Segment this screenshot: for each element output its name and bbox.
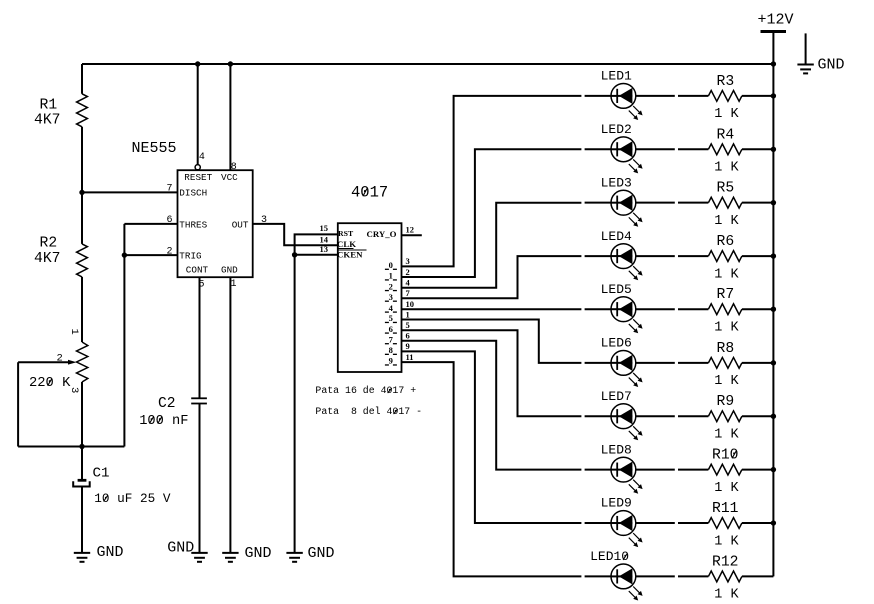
resistor R1 (34, 94, 87, 129)
svg-text:13: 13 (320, 244, 329, 254)
wire R10 to +12V rail (742, 469, 774, 471)
wire Q1 (pin 2) to LED2 (402, 149, 582, 277)
wire 4017 RST pin 15 (295, 234, 338, 553)
wire into LED10 (585, 575, 612, 577)
4017 inner label CLK underline (337, 248, 354, 250)
resistor R10 1K (708, 448, 742, 496)
wire LED7 to R9 (636, 415, 675, 417)
svg-text:4: 4 (389, 303, 394, 313)
junction R6 / +12V rail (771, 253, 776, 258)
svg-text:5: 5 (406, 320, 410, 330)
LED LED10 (590, 549, 643, 600)
svg-text:2: 2 (57, 353, 63, 365)
svg-text:8: 8 (389, 345, 393, 355)
+12V supply symbol (758, 12, 794, 65)
svg-text:LED5: LED5 (601, 282, 632, 297)
junction top rail / +12V rail (771, 61, 776, 66)
wire NE555 OUT to 4017 CLK (253, 224, 338, 245)
junction DISCH node (79, 190, 84, 195)
wire 4017 CKEN pin 13 (295, 254, 338, 256)
svg-text:R10: R10 (712, 448, 738, 464)
wire into LED8 (585, 469, 612, 471)
junction R5 / +12V rail (771, 200, 776, 205)
svg-text:C1: C1 (93, 466, 110, 482)
svg-text:RESET: RESET (184, 172, 212, 183)
svg-text:6: 6 (406, 331, 410, 341)
svg-text:2: 2 (389, 281, 393, 291)
svg-text:100 nF: 100 nF (139, 414, 188, 429)
capacitor C1 (electrolytic 10uF) (73, 447, 171, 506)
svg-text:11: 11 (406, 352, 414, 362)
wire R3 to +12V rail (742, 95, 774, 97)
wire R5 to +12V rail (742, 202, 774, 204)
svg-text:3: 3 (406, 256, 410, 266)
svg-text:NE555: NE555 (132, 140, 177, 157)
svg-text:220 K: 220 K (29, 376, 71, 391)
LED LED3 (601, 175, 643, 226)
wire R9 to +12V rail (742, 415, 774, 417)
svg-text:GND: GND (818, 57, 845, 74)
svg-text:R3: R3 (717, 74, 735, 90)
resistor R7 1K (708, 287, 742, 335)
svg-text:1 K: 1 K (714, 588, 739, 603)
note: Pata 8 del 4017 - (315, 406, 422, 417)
svg-text:LED8: LED8 (601, 442, 632, 457)
wire 4017 CRY_O pin 12 stub (402, 234, 422, 236)
svg-text:GND: GND (97, 544, 124, 561)
wire into LED5 (585, 308, 612, 310)
wire pot wiper bottom to TRIG vertical (18, 446, 124, 448)
svg-text:1 K: 1 K (714, 534, 739, 549)
svg-text:6: 6 (389, 324, 393, 334)
wire Q7 (pin 6) to LED8 (402, 341, 582, 470)
note: Pata 16 de 4017 + (315, 385, 416, 396)
4017 output Q3 inner label (385, 292, 397, 302)
4017 output Q1 inner label (385, 271, 397, 281)
wire R6 to +12V rail (742, 255, 774, 257)
junction R10 / +12V rail (771, 467, 776, 472)
svg-text:R5: R5 (717, 181, 735, 197)
svg-text:LED4: LED4 (601, 229, 632, 244)
resistor R3 1K (708, 74, 742, 122)
svg-text:GND: GND (221, 265, 238, 276)
svg-text:1 K: 1 K (714, 214, 739, 229)
svg-text:GND: GND (308, 545, 335, 562)
junction RST/CKEN net (292, 252, 297, 257)
4017 output Q4 inner label (385, 303, 397, 313)
svg-text:CKEN: CKEN (337, 249, 363, 259)
svg-text:1 K: 1 K (714, 267, 739, 282)
LED LED7 (601, 389, 643, 440)
ground NE555 pin 1 (222, 545, 271, 562)
svg-text:Pata 8 del 4017 -: Pata 8 del 4017 - (315, 406, 422, 417)
LED LED6 (601, 336, 643, 387)
NE555 pin 4 RESET wire with inversion bubble (195, 64, 205, 170)
svg-text:15: 15 (320, 223, 329, 233)
svg-text:VCC: VCC (221, 172, 238, 183)
wire into LED6 (585, 362, 612, 364)
svg-text:CLK: CLK (337, 239, 356, 249)
wire R2 to potentiometer (81, 277, 83, 342)
resistor R2 (34, 236, 87, 277)
wire Q2 (pin 4) to LED3 (402, 203, 582, 288)
svg-text:R2: R2 (40, 236, 58, 252)
svg-text:9: 9 (389, 356, 393, 366)
svg-text:GND: GND (167, 540, 194, 557)
svg-text:R8: R8 (717, 341, 735, 357)
svg-text:LED3: LED3 (601, 175, 632, 190)
4017 output Q8 inner label (385, 345, 397, 355)
svg-text:12: 12 (406, 225, 415, 235)
svg-text:1: 1 (68, 329, 80, 335)
wire Q6 (pin 5) to LED7 (402, 330, 582, 416)
LED LED1 (601, 69, 643, 120)
resistor R4 1K (708, 127, 742, 175)
wire NE555 pin 5 to C2 (199, 277, 201, 398)
svg-text:LED7: LED7 (601, 389, 632, 404)
resistor R6 1K (708, 234, 742, 282)
svg-text:4: 4 (199, 152, 205, 163)
svg-text:LED10: LED10 (590, 549, 629, 564)
LED LED9 (601, 496, 643, 547)
wire pot wiper down-left (17, 362, 19, 446)
svg-text:1 K: 1 K (714, 107, 739, 122)
wire into LED4 (585, 255, 612, 257)
svg-text:1 K: 1 K (714, 161, 739, 176)
4017 output Q6 inner label (385, 324, 397, 334)
wire R11 to +12V rail (742, 522, 774, 524)
wire THRES to NE555 pin 6 (124, 223, 177, 225)
svg-text:2: 2 (406, 267, 410, 277)
svg-text:3: 3 (389, 292, 393, 302)
wire into LED3 (585, 202, 612, 204)
wire LED5 to R7 (636, 308, 675, 310)
wire R12 to +12V rail (742, 575, 774, 577)
svg-text:R12: R12 (712, 554, 738, 570)
svg-text:+12V: +12V (758, 12, 794, 29)
resistor R5 1K (708, 181, 742, 229)
4017 inner label CKEN overline (337, 249, 367, 251)
wire Q5 (pin 1) to LED6 (402, 320, 582, 363)
svg-text:1: 1 (389, 271, 393, 281)
junction top rail / NE555 pin 8 (228, 61, 233, 66)
wire NE555 pin 1 to ground (229, 277, 231, 553)
resistor R9 1K (708, 394, 742, 442)
wire Q9 (pin 11) to LED10 (402, 362, 582, 576)
svg-text:1 K: 1 K (714, 321, 739, 336)
wire LED2 to R4 (636, 148, 675, 150)
4017 output Q7 inner label (385, 334, 397, 344)
svg-text:R9: R9 (717, 394, 735, 410)
wire DISCH to NE555 pin 7 (82, 191, 178, 193)
capacitor C2 100nF (139, 396, 207, 429)
junction pot bottom / C1 (79, 444, 84, 449)
wire TRIG to NE555 pin 2 (124, 254, 177, 256)
LED LED4 (601, 229, 643, 280)
resistor R11 1K (708, 501, 742, 549)
junction R3 / +12V rail (771, 93, 776, 98)
wire LED8 to R10 (636, 469, 675, 471)
svg-text:OUT: OUT (232, 219, 249, 230)
wire LED10 to R12 (636, 575, 675, 577)
potentiometer 220 K (18, 329, 88, 394)
ground symbol top right (797, 33, 844, 73)
wire Q0 (pin 3) to LED1 (402, 96, 582, 267)
wire top +12V rail horizontal (82, 63, 773, 65)
wire LED6 to R8 (636, 362, 675, 364)
wire LED1 to R3 (636, 95, 675, 97)
wire LED4 to R6 (636, 255, 675, 257)
wire C2 to ground (199, 404, 201, 553)
svg-text:LED1: LED1 (601, 69, 632, 84)
svg-text:4K7: 4K7 (34, 251, 60, 267)
resistor R12 1K (708, 554, 742, 602)
svg-text:14: 14 (320, 234, 329, 244)
junction R7 / +12V rail (771, 307, 776, 312)
LED LED8 (601, 442, 643, 493)
svg-text:R4: R4 (717, 127, 735, 143)
junction R9 / +12V rail (771, 414, 776, 419)
svg-text:CONT: CONT (186, 265, 209, 276)
svg-text:LED9: LED9 (601, 496, 632, 511)
4017 output Q5 inner label (385, 313, 397, 323)
svg-text:TRIG: TRIG (179, 251, 201, 262)
junction R11 / +12V rail (771, 520, 776, 525)
wire +12V rail vertical right (772, 64, 774, 576)
wire R1 to R2 / node DISCH (81, 127, 83, 244)
junction R4 / +12V rail (771, 147, 776, 152)
svg-text:C2: C2 (158, 396, 176, 412)
ground RST/CKEN net (286, 545, 334, 562)
svg-text:RST: RST (338, 229, 354, 238)
wire into LED7 (585, 415, 612, 417)
wire into LED9 (585, 522, 612, 524)
ground C1 (74, 544, 124, 562)
wire R7 to +12V rail (742, 308, 774, 310)
wire Q3 (pin 7) to LED4 (402, 256, 582, 298)
svg-text:4017: 4017 (351, 184, 388, 202)
LED LED2 (601, 122, 643, 173)
svg-text:9: 9 (406, 341, 410, 351)
svg-text:GND: GND (245, 545, 272, 562)
wire into LED1 (585, 95, 612, 97)
svg-text:0: 0 (389, 260, 393, 270)
IC 4017 decade counter (338, 184, 402, 373)
4017 output Q0 inner label (385, 260, 397, 270)
svg-text:LED6: LED6 (601, 336, 632, 351)
junction top rail / NE555 pin 4 (195, 61, 200, 66)
4017 output Q2 inner label (385, 281, 397, 291)
svg-text:1 K: 1 K (714, 481, 739, 496)
svg-text:7: 7 (166, 184, 172, 195)
wire LED3 to R5 (636, 202, 675, 204)
wire pot bottom leg (81, 382, 83, 447)
svg-text:10: 10 (406, 299, 415, 309)
wire LED9 to R11 (636, 522, 675, 524)
4017 output Q9 inner label (385, 356, 397, 366)
wire into LED2 (585, 148, 612, 150)
op IC NE555 timer (132, 140, 253, 277)
svg-text:Pata 16 de 4017 +: Pata 16 de 4017 + (315, 385, 416, 396)
svg-text:1 K: 1 K (714, 428, 739, 443)
svg-text:DISCH: DISCH (179, 187, 207, 198)
svg-text:LED2: LED2 (601, 122, 632, 137)
wire C1 to ground (81, 487, 83, 553)
svg-text:4K7: 4K7 (34, 113, 60, 129)
svg-text:7: 7 (389, 334, 394, 344)
wire THRES/TRIG vertical (123, 224, 125, 447)
wire Q4 (pin 10) to LED5 (402, 308, 582, 310)
resistor R8 1K (708, 341, 742, 389)
svg-text:5: 5 (389, 313, 393, 323)
wire top rail to R1 (81, 64, 83, 94)
svg-text:CRY_O: CRY_O (367, 229, 397, 239)
svg-text:1: 1 (231, 279, 237, 290)
svg-text:R7: R7 (717, 287, 735, 303)
junction TRIG node (122, 252, 127, 257)
ground C2 (167, 540, 208, 562)
svg-text:R1: R1 (40, 98, 58, 114)
LED LED5 (601, 282, 643, 333)
junction R8 / +12V rail (771, 360, 776, 365)
wire Q8 (pin 9) to LED9 (402, 351, 582, 523)
svg-text:THRES: THRES (179, 219, 207, 230)
svg-text:R11: R11 (712, 501, 739, 517)
svg-text:1: 1 (406, 309, 410, 319)
wire R8 to +12V rail (742, 362, 774, 364)
svg-text:1 K: 1 K (714, 374, 739, 389)
svg-text:R6: R6 (717, 234, 735, 250)
wire R4 to +12V rail (742, 148, 774, 150)
NE555 pin 8 VCC wire (230, 64, 236, 173)
